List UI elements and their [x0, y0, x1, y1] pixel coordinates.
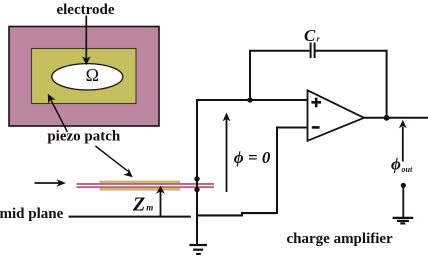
- svg-text:C: C: [304, 26, 316, 45]
- svg-text:out: out: [402, 165, 413, 174]
- svg-text:electrode: electrode: [56, 2, 114, 18]
- svg-text:ϕ = 0: ϕ = 0: [234, 148, 271, 167]
- svg-text:Z: Z: [132, 194, 145, 216]
- svg-text:Ω: Ω: [86, 65, 99, 85]
- svg-text:charge amplifier: charge amplifier: [287, 231, 394, 247]
- svg-text:m: m: [146, 203, 153, 213]
- svg-text:piezo patch: piezo patch: [47, 129, 121, 145]
- svg-text:ϕ: ϕ: [391, 155, 401, 174]
- svg-text:mid plane: mid plane: [0, 206, 64, 222]
